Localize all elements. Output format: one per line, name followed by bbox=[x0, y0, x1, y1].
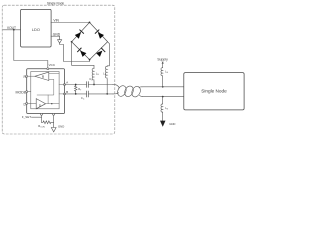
svg-text:Supply: Supply bbox=[157, 57, 168, 61]
transceiver U2 inner box bbox=[31, 72, 59, 109]
inductor L3 (supply) bbox=[161, 68, 163, 76]
node junction RT/A bbox=[75, 84, 77, 86]
resistor RCON (zigzag) bbox=[42, 121, 54, 124]
node junction RT/B bbox=[75, 93, 77, 95]
node: bridge left junction bbox=[71, 41, 73, 43]
wire F_SET bbox=[32, 117, 42, 122]
supply arrow bbox=[162, 61, 164, 63]
ground symbol (U2, open triangle) bbox=[51, 128, 56, 132]
capacitor C2 (line B) bbox=[86, 91, 88, 97]
svg-text:GND: GND bbox=[53, 32, 61, 36]
node junction L1/A bbox=[93, 84, 95, 86]
wire LDO GND bbox=[51, 36, 60, 40]
wire bus top (to right node) bbox=[142, 86, 184, 88]
ground symbol (open triangle) bbox=[58, 40, 62, 44]
internal wires bbox=[27, 75, 35, 77]
inductor L4 (gnd) bbox=[161, 104, 163, 112]
wire supply tap up bbox=[162, 76, 164, 87]
node boundary (dashed box) bbox=[2, 5, 115, 134]
svg-text:GND: GND bbox=[169, 122, 175, 126]
pin VCC bbox=[47, 68, 49, 70]
wire VOUT to VCC pin bbox=[14, 30, 48, 68]
diode D3 (left-bottom) bbox=[80, 51, 86, 57]
diode bridge edges bbox=[72, 22, 108, 59]
regulator U1 LDO bbox=[21, 9, 51, 47]
svg-text:Single Node: Single Node bbox=[201, 89, 227, 94]
inductor L1 bbox=[92, 68, 94, 80]
pin A bbox=[64, 84, 66, 86]
driver triangle D bbox=[36, 99, 45, 109]
wire U2 gnd pin down bbox=[53, 115, 55, 127]
svg-text:F_SET: F_SET bbox=[22, 115, 32, 119]
svg-text:VIN: VIN bbox=[53, 19, 59, 23]
wire to gnd arrow bbox=[162, 112, 164, 121]
svg-text:LDO: LDO bbox=[32, 27, 40, 32]
pin B bbox=[64, 93, 66, 95]
capacitor C1 (line A) bbox=[86, 82, 88, 88]
svg-text:MODE: MODE bbox=[16, 91, 27, 95]
wire bridge left AC to inductor L1 bbox=[72, 42, 94, 69]
transceiver U2 outer box bbox=[27, 69, 65, 114]
svg-text:VCC: VCC bbox=[49, 63, 56, 67]
node junction gnd tap bbox=[162, 96, 164, 98]
pin GND (U2) bbox=[53, 113, 55, 115]
node junction L2/B bbox=[106, 93, 108, 95]
receiver triangle R bbox=[35, 72, 49, 80]
pin F_SET bbox=[41, 113, 43, 115]
node: bridge top junction bbox=[89, 22, 91, 24]
gnd arrow (filled) bbox=[160, 121, 166, 127]
wire bus bottom (to right node) bbox=[142, 96, 184, 98]
svg-text:VOUT: VOUT bbox=[7, 26, 16, 30]
pin D bbox=[26, 102, 28, 104]
wire L1 to line A bbox=[93, 81, 95, 85]
pin R bbox=[26, 75, 28, 77]
wire line A bbox=[65, 84, 87, 86]
node: bridge bottom junction bbox=[89, 59, 91, 61]
wire L2 to line B bbox=[106, 79, 108, 94]
diode D1 (left-top) bbox=[75, 32, 81, 38]
pin MODE bbox=[26, 91, 28, 93]
wire to supply arrow bbox=[162, 62, 164, 67]
svg-text:Single Node: Single Node bbox=[47, 1, 65, 5]
wire bridge negative to ground node bbox=[60, 43, 90, 61]
svg-text:GND: GND bbox=[58, 124, 64, 128]
diode D2 (right-top) bbox=[98, 32, 104, 38]
diode D4 (right-bottom) bbox=[96, 51, 102, 57]
right node box bbox=[184, 73, 244, 110]
wire gnd tap down bbox=[162, 97, 164, 104]
wire VIN (LDO to bridge top) bbox=[51, 22, 89, 24]
svg-text:B: B bbox=[66, 90, 68, 94]
wire VOUT bbox=[3, 29, 21, 31]
node junction on VOUT wire bbox=[13, 29, 15, 31]
wire line B bbox=[65, 93, 87, 95]
twisted pair cable bbox=[113, 85, 119, 88]
inductor L2 bbox=[105, 66, 107, 78]
wire bridge right AC to inductor L2 bbox=[107, 42, 109, 67]
resistor RT (zigzag) bbox=[75, 85, 77, 94]
node junction supply tap bbox=[162, 86, 164, 88]
